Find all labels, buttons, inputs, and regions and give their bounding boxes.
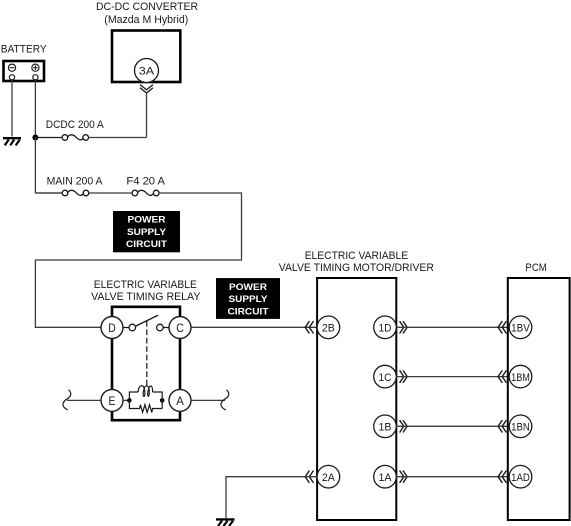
relay pin E	[101, 389, 123, 411]
svg-text:3A: 3A	[139, 65, 155, 77]
pin 1C	[374, 365, 397, 388]
wire 1D to 1BV	[396, 326, 508, 328]
svg-text:1D: 1D	[379, 323, 392, 335]
svg-text:1C: 1C	[379, 372, 392, 384]
pin 2A	[317, 465, 340, 488]
power supply circuit label box 2	[216, 278, 280, 319]
node coil right	[160, 398, 165, 403]
motor/driver label	[279, 250, 434, 274]
pin 1AD	[509, 465, 532, 488]
svg-text:1BV: 1BV	[511, 323, 530, 335]
svg-text:VALVE TIMING RELAY: VALVE TIMING RELAY	[91, 291, 201, 303]
wire E to coil node	[123, 399, 129, 401]
svg-text:CIRCUIT: CIRCUIT	[228, 306, 269, 317]
PCM label	[525, 262, 546, 274]
connector chevrons at 1AD	[498, 471, 506, 483]
relay outline	[112, 307, 180, 420]
relay pin D	[101, 317, 123, 339]
wire relay C to motor 2B	[191, 326, 317, 328]
connector chevrons at 1BM	[498, 370, 506, 382]
continuation squiggle right	[221, 390, 229, 410]
svg-text:1A: 1A	[379, 472, 393, 484]
relay label	[91, 279, 201, 303]
ground battery	[3, 138, 21, 145]
svg-text:E: E	[109, 394, 116, 408]
relay pin A	[169, 389, 191, 411]
svg-text:2B: 2B	[322, 323, 335, 335]
svg-text:A: A	[176, 394, 184, 408]
svg-text:(Mazda M Hybrid): (Mazda M Hybrid)	[104, 14, 188, 26]
svg-text:1BN: 1BN	[511, 422, 530, 434]
wire battery positive down to junction	[34, 80, 36, 138]
pin 1BV	[509, 316, 532, 339]
node junction battery/DCDC	[32, 135, 38, 141]
svg-text:DC-DC CONVERTER: DC-DC CONVERTER	[96, 1, 198, 13]
pin 1B	[374, 415, 397, 438]
wire 1B to 1BN	[396, 425, 508, 427]
wire left continuation to E	[67, 399, 101, 401]
connector chevrons at 2A	[305, 471, 313, 483]
relay actuation dashed line	[146, 321, 148, 386]
fuse DCDC 200 A	[35, 119, 104, 140]
svg-text:ELECTRIC VARIABLE: ELECTRIC VARIABLE	[305, 250, 409, 262]
battery B1	[4, 61, 45, 81]
relay coil with parallel resistor	[129, 386, 162, 413]
wire junction down to MAIN fuse	[34, 138, 36, 194]
relay switch D-C	[123, 315, 169, 331]
svg-text:ELECTRIC VARIABLE: ELECTRIC VARIABLE	[94, 279, 197, 291]
svg-text:SUPPLY: SUPPLY	[229, 294, 269, 305]
svg-text:POWER: POWER	[128, 215, 166, 226]
svg-text:VALVE TIMING MOTOR/DRIVER: VALVE TIMING MOTOR/DRIVER	[279, 262, 434, 274]
wire 2A to ground	[226, 477, 317, 518]
node coil left	[127, 398, 132, 403]
connector chevrons at 1B	[400, 420, 408, 432]
svg-text:MAIN 200 A: MAIN 200 A	[47, 175, 103, 187]
DC-DC converter box	[112, 31, 180, 83]
wire battery negative to ground	[11, 80, 13, 137]
svg-text:D: D	[108, 321, 116, 335]
wire A to right continuation	[191, 399, 225, 401]
pin 1D	[374, 316, 397, 339]
continuation squiggle left	[63, 390, 71, 410]
svg-text:BATTERY: BATTERY	[1, 44, 47, 56]
pin 3A connector circle	[135, 59, 159, 83]
svg-text:2A: 2A	[322, 472, 336, 484]
svg-text:1BM: 1BM	[511, 372, 530, 384]
connector chevrons at 1D	[400, 321, 408, 333]
battery label	[1, 44, 47, 56]
wire between MAIN and F4 fuses	[89, 192, 132, 194]
fuse MAIN 200 A	[35, 175, 102, 196]
ground motor	[216, 519, 235, 526]
svg-text:DCDC 200 A: DCDC 200 A	[46, 119, 104, 131]
pin 1BN	[509, 415, 532, 438]
connector chevrons at 2B	[305, 321, 313, 333]
wire 1C to 1BM	[396, 376, 508, 378]
wire 1A to 1AD	[396, 476, 508, 478]
connector chevrons at 1C	[400, 370, 408, 382]
svg-text:1AD: 1AD	[511, 472, 530, 484]
power supply circuit label box 1	[113, 211, 180, 252]
DC-DC converter label	[96, 1, 198, 26]
svg-text:F4 20 A: F4 20 A	[126, 175, 165, 187]
svg-text:POWER: POWER	[229, 282, 267, 293]
pin 2B	[317, 316, 340, 339]
connector chevrons at 1BN	[498, 420, 506, 432]
pin 1A	[374, 465, 397, 488]
svg-text:CIRCUIT: CIRCUIT	[126, 239, 167, 250]
svg-text:SUPPLY: SUPPLY	[127, 227, 167, 238]
PCM box	[508, 278, 570, 520]
relay pin C	[169, 317, 191, 339]
connector chevrons at 1A	[400, 471, 408, 483]
connector chevrons below 3A	[140, 85, 153, 93]
svg-text:1B: 1B	[379, 422, 392, 434]
wire DC-DC converter down to DCDC fuse	[88, 93, 146, 138]
motor/driver box	[317, 278, 396, 520]
svg-text:PCM: PCM	[525, 262, 546, 274]
svg-text:C: C	[176, 321, 184, 335]
fuse F4 20 A	[126, 175, 165, 196]
wire F4 fuse around power supply circuit label to relay D	[35, 193, 241, 327]
connector chevrons at 1BV	[498, 321, 506, 333]
pin 1BM	[509, 365, 532, 388]
